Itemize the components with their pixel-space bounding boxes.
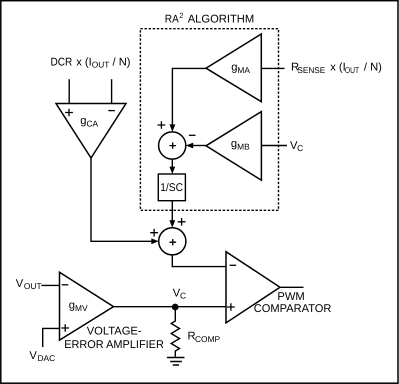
svg-text:V: V <box>16 278 24 290</box>
resistor RCOMP <box>171 307 179 357</box>
svg-text:V: V <box>29 350 37 362</box>
svg-text:VOLTAGE-: VOLTAGE- <box>87 326 142 338</box>
svg-text:1/SC: 1/SC <box>160 182 183 194</box>
comparator PWM <box>226 252 280 323</box>
svg-text:DCR: DCR <box>51 57 73 69</box>
svg-text:/ N): / N) <box>109 57 130 69</box>
svg-text:RA: RA <box>165 13 179 25</box>
label PWM COMPARATOR <box>254 291 332 315</box>
wire gMB apex arrow into summer 1 right <box>192 145 206 147</box>
svg-text:C: C <box>180 290 186 300</box>
summer 1 plus sign (top left) <box>158 121 166 129</box>
svg-text:OUT: OUT <box>92 60 110 70</box>
wire DCR input stub right into gCA - input <box>111 79 113 103</box>
svg-text:OUT: OUT <box>345 65 359 75</box>
wire gMA apex left then down into summer 1 <box>172 68 206 125</box>
op-amp gMV voltage-error amplifier <box>60 272 114 340</box>
dashed box RA2 algorithm block <box>140 29 278 211</box>
svg-text:C: C <box>297 143 303 153</box>
wire gMB input stub from VC label <box>261 145 287 147</box>
wire gMV output to PWM + input (VC net) <box>114 306 227 308</box>
node label VDAC <box>29 350 55 363</box>
svg-text:ALGORITHM: ALGORITHM <box>188 13 255 25</box>
svg-text:OUT: OUT <box>24 281 42 291</box>
wire VOUT into gMV - input <box>41 284 59 286</box>
wire VDAC up into gMV + input <box>43 328 60 347</box>
title RA2 ALGORITHM <box>165 11 254 26</box>
wire summer 1 to 1/SC block <box>171 159 173 167</box>
summing junction S1 <box>159 132 186 159</box>
label RCOMP <box>188 331 221 345</box>
summer 2 plus sign (left) <box>150 229 158 237</box>
svg-text:ERROR AMPLIFIER: ERROR AMPLIFIER <box>64 339 164 351</box>
svg-text:DAC: DAC <box>38 353 56 363</box>
amplifier gCA <box>56 104 126 159</box>
node label VC <box>173 287 186 300</box>
wire PWM output stub <box>280 286 304 288</box>
svg-text:MA: MA <box>237 65 250 75</box>
amplifier gMA <box>206 34 261 102</box>
node label DCR x (IOUT / N) <box>51 57 131 70</box>
amplifier gMB <box>206 112 261 181</box>
node label VOUT <box>16 278 42 291</box>
summing junction S2 <box>159 228 186 255</box>
label VOLTAGE- ERROR AMPLIFIER <box>64 326 164 352</box>
svg-text:COMP: COMP <box>195 334 221 344</box>
svg-text:PWM: PWM <box>277 291 304 303</box>
summer 2 plus sign (top right) <box>178 218 186 226</box>
svg-text:/ N): / N) <box>364 62 382 74</box>
svg-text:MV: MV <box>75 303 88 313</box>
ground <box>167 358 185 366</box>
summer 1 minus sign (right) <box>189 134 196 136</box>
integrator block 1/SC <box>158 174 185 201</box>
wire DCR input stub left into gCA + input <box>68 79 70 103</box>
svg-text:CA: CA <box>87 118 99 128</box>
svg-text:x (I: x (I <box>76 57 92 69</box>
wire gCA apex down then right into summer 2 <box>91 157 153 241</box>
svg-text:COMPARATOR: COMPARATOR <box>254 303 332 315</box>
node label RSENSE x (IOUT / N) <box>291 62 382 75</box>
junction dot VC node <box>172 304 179 311</box>
wire 1/SC down into summer 2 <box>171 201 173 221</box>
wire summer 2 down then right to PWM - input <box>172 255 226 267</box>
svg-text:SENSE: SENSE <box>297 65 325 75</box>
wire gMA output stub to RSENSE label <box>261 67 284 69</box>
svg-text:MB: MB <box>237 142 250 152</box>
node label VC (gMB input) <box>290 140 303 153</box>
svg-text:2: 2 <box>179 11 183 20</box>
svg-text:x (I: x (I <box>330 62 346 74</box>
